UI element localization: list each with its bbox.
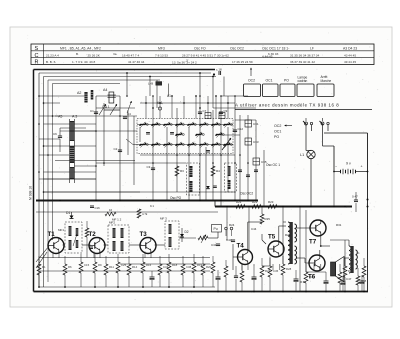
svg-text:16 40 47 7 4: 16 40 47 7 4 bbox=[122, 53, 139, 57]
svg-text:C31: C31 bbox=[253, 122, 259, 126]
svg-text:A utiliser avec dessin modè: A utiliser avec dessin modèle TX 938 16 … bbox=[235, 103, 339, 108]
oscillator coil Osc PO bbox=[187, 163, 200, 195]
svg-text:MF1: MF1 bbox=[58, 228, 64, 232]
svg-text:C34: C34 bbox=[163, 265, 169, 269]
resistor R4 bbox=[211, 166, 215, 176]
driver transformer core bbox=[290, 222, 293, 264]
svg-text:R4: R4 bbox=[216, 169, 220, 173]
junction dot top rail 2 bbox=[149, 76, 151, 78]
wire horizontal mid #1 bbox=[96, 95, 120, 97]
switch contact row1 #4 bbox=[176, 124, 182, 126]
svg-text:9 v: 9 v bbox=[346, 162, 351, 166]
svg-text:31 35 36 34 36 37 34: 31 35 36 34 36 37 34 bbox=[290, 53, 320, 57]
right rail corner horizontal bbox=[324, 132, 368, 134]
wire transistor lead down #6 bbox=[150, 252, 152, 259]
wire transistor lead down #12 bbox=[320, 264, 322, 270]
diode small near osc bbox=[206, 186, 210, 189]
wire drop from top rail E bbox=[212, 77, 214, 109]
battery wires bbox=[334, 171, 341, 173]
electrolytic cap CE5 bbox=[324, 280, 329, 282]
IF transformer MF3 bbox=[165, 221, 179, 249]
wire drop below C18 bbox=[223, 77, 225, 97]
svg-text:Osc OC2: Osc OC2 bbox=[230, 47, 244, 51]
resistor bottom #10 bbox=[167, 262, 171, 273]
svg-text:L1: L1 bbox=[300, 153, 304, 157]
switch contact row3 #2 bbox=[196, 134, 202, 136]
svg-text:R30: R30 bbox=[309, 275, 315, 279]
pickup jack PU bbox=[212, 225, 222, 233]
trimmer upper A bbox=[205, 113, 211, 119]
wire antenna to grid bbox=[75, 130, 97, 132]
svg-text:A4: A4 bbox=[103, 88, 107, 92]
resistor bottom #21 bbox=[362, 266, 366, 277]
electrolytic cap CE1 bbox=[150, 276, 155, 278]
capacitor C1 bbox=[94, 111, 98, 113]
svg-text:D1: D1 bbox=[66, 211, 70, 215]
svg-text:A3 D4 23: A3 D4 23 bbox=[343, 47, 357, 51]
junction dots rail bbox=[59, 200, 61, 202]
switch contact row1 #6 bbox=[200, 124, 206, 126]
electrolytic cap CE3 bbox=[252, 276, 257, 278]
switch contact row2 #7 bbox=[212, 144, 218, 146]
output transformer TR2 primary bbox=[349, 246, 351, 273]
capacitor across switch row C bbox=[206, 150, 210, 152]
wire left lower a bbox=[44, 178, 97, 180]
junction dot battery left bbox=[333, 171, 335, 173]
wire vertical mid #20 bbox=[263, 150, 265, 206]
switch contact row2 #8 bbox=[224, 144, 230, 146]
wire horizontal mid #6 bbox=[96, 162, 186, 164]
svg-text:R32: R32 bbox=[348, 269, 354, 273]
wire vertical mid #13 bbox=[212, 110, 214, 200]
svg-text:C25: C25 bbox=[121, 263, 127, 267]
svg-text:Pu: Pu bbox=[214, 227, 218, 231]
diagonal wire to T1 base a bbox=[36, 246, 49, 262]
band box PO bbox=[280, 84, 295, 97]
junction dot top rail 3 bbox=[199, 72, 201, 74]
upper mid dots bbox=[145, 102, 147, 104]
trimmer cap right of CA1 bbox=[123, 116, 127, 118]
switch contact row1 #5 bbox=[188, 124, 194, 126]
wire lamp down bbox=[310, 159, 312, 172]
svg-text:R1: R1 bbox=[42, 265, 46, 269]
wire T1 row interconnect bbox=[63, 244, 66, 246]
oscillator trim caps column bbox=[238, 169, 242, 171]
wire horizontal mid #4 bbox=[60, 130, 137, 132]
audio horizontal wire k bbox=[283, 221, 286, 223]
svg-text:M 938 16: M 938 16 bbox=[29, 186, 33, 200]
wire vertical mid #11 bbox=[199, 96, 201, 200]
svg-text:R9: R9 bbox=[98, 263, 102, 267]
resistor bottom #16 bbox=[281, 264, 285, 275]
resistor bottom #12 bbox=[192, 262, 196, 273]
wire vertical mid #14 bbox=[220, 96, 222, 200]
chassis rail left heavy bbox=[36, 200, 258, 202]
svg-text:41 47 46 44: 41 47 46 44 bbox=[128, 60, 145, 64]
electrolytic cap CE2 bbox=[216, 276, 221, 278]
wire horizontal mid #11 bbox=[235, 119, 256, 121]
resistor bottom #13 bbox=[201, 264, 205, 275]
top bus wire 4 bbox=[53, 83, 121, 85]
resistor R42 mid bottom bbox=[224, 266, 228, 277]
left rail stub wires bbox=[39, 95, 86, 97]
wire vertical mid #5 bbox=[133, 116, 135, 185]
wire drop from top rail D bbox=[199, 73, 201, 96]
schematic frame top bbox=[34, 69, 216, 71]
band box OC2 bbox=[244, 84, 261, 97]
svg-text:T5: T5 bbox=[268, 234, 276, 241]
table row line 2 bbox=[31, 57, 374, 59]
switch wiper arrow row2 bbox=[222, 138, 231, 150]
svg-text:A2: A2 bbox=[77, 91, 81, 95]
svg-text:4 44-45: 4 44-45 bbox=[262, 55, 273, 59]
coil A2 partner bar bbox=[91, 90, 94, 100]
svg-text:Osc FO: Osc FO bbox=[194, 47, 206, 51]
resistor R40 below volume bbox=[211, 262, 215, 273]
speaker HP bbox=[331, 262, 336, 276]
switch row1 wire bbox=[137, 124, 233, 126]
wire T6 T7 join bbox=[321, 245, 330, 247]
svg-text:C45: C45 bbox=[273, 269, 279, 273]
wire transistor lead down #7 bbox=[241, 264, 243, 270]
wire T5 collector to TR1 bbox=[278, 226, 280, 242]
svg-text:OC2: OC2 bbox=[248, 79, 255, 83]
wire left lower b bbox=[44, 191, 141, 193]
resistor R10 vertical near rail bbox=[137, 209, 141, 218]
svg-text:Marche: Marche bbox=[321, 79, 332, 83]
switch bank dashed enclosure bbox=[137, 119, 233, 154]
paper sheet bbox=[10, 27, 392, 307]
switch contact row2 #5 bbox=[188, 144, 194, 146]
wire vertical mid #4 bbox=[127, 110, 129, 155]
wire vertical mid #7 bbox=[152, 96, 154, 200]
left bus wire 4 bbox=[52, 84, 54, 241]
wire T4 base bbox=[233, 256, 238, 258]
wire vertical mid #10 bbox=[188, 127, 190, 200]
oscillator coil Osc OC2 bbox=[225, 163, 237, 192]
wire TR1 to T7 base bbox=[297, 227, 311, 229]
right rail vertical bbox=[367, 133, 369, 292]
wire vertical mid #15 bbox=[227, 127, 229, 192]
svg-text:C33: C33 bbox=[253, 140, 259, 144]
audio vertical wire f bbox=[282, 207, 284, 265]
resistor bottom #6 bbox=[116, 262, 120, 273]
electrolytic cap C46 right bbox=[341, 281, 346, 283]
wire horizontal mid #7 bbox=[60, 171, 96, 173]
junction dot top rail 4 bbox=[212, 76, 214, 78]
bottom bus wire thin bbox=[39, 286, 215, 288]
resistor bottom #3 bbox=[79, 262, 83, 273]
svg-text:R26: R26 bbox=[285, 233, 291, 237]
output transformer core bbox=[351, 246, 354, 273]
svg-text:R24: R24 bbox=[229, 223, 235, 227]
wire drop from top rail A bbox=[126, 73, 128, 96]
audio vertical wire c bbox=[333, 146, 335, 207]
svg-text:R11: R11 bbox=[109, 265, 114, 269]
IF transformer MF2 bbox=[108, 225, 129, 253]
trimmer C35 bbox=[253, 158, 260, 165]
switch S1 pole 2 bbox=[310, 122, 312, 124]
resistor R8 horizontal on wire bbox=[105, 212, 116, 216]
wire transistor lead down #5 bbox=[144, 252, 146, 259]
capacitor across switch row A bbox=[146, 132, 150, 134]
svg-text:LF: LF bbox=[310, 47, 314, 51]
top bus wire 3 bbox=[48, 79, 160, 81]
wire TR1 to T6 base bbox=[297, 257, 306, 259]
svg-text:C41: C41 bbox=[211, 243, 217, 247]
svg-text:PO: PO bbox=[284, 79, 289, 83]
svg-text:C4: C4 bbox=[127, 112, 131, 116]
svg-text:C48: C48 bbox=[361, 279, 367, 283]
output transformer secondary bbox=[356, 250, 358, 269]
resistor bottom #11 bbox=[181, 264, 185, 275]
svg-text:T1: T1 bbox=[48, 231, 56, 238]
bottom distribution wire 3 bbox=[40, 257, 210, 259]
svg-text:R16: R16 bbox=[146, 263, 152, 267]
scan speckle bbox=[12, 29, 390, 304]
svg-text:R22: R22 bbox=[252, 200, 258, 204]
switch contact row1 #3 bbox=[164, 124, 170, 126]
resistor R25 vertical bbox=[260, 214, 264, 224]
switch contact row2 #2 bbox=[152, 144, 158, 146]
component L1B on top wire bbox=[156, 81, 163, 85]
capacitor C7 bbox=[198, 111, 202, 113]
top bus wire 2 bbox=[44, 76, 217, 78]
top bus wire 1 bbox=[39, 72, 211, 74]
svg-text:B. B. 6.: B. B. 6. bbox=[46, 60, 56, 64]
left rail junction dots bbox=[38, 95, 40, 97]
svg-text:R25: R25 bbox=[265, 217, 271, 221]
svg-text:A5: A5 bbox=[58, 115, 62, 119]
wire horizontal mid #12 bbox=[221, 134, 240, 136]
audio vertical wire j bbox=[220, 201, 222, 207]
transistor T7 bbox=[310, 220, 326, 236]
left bus wire 2 bbox=[43, 77, 45, 288]
transistor T6 bbox=[309, 255, 325, 271]
svg-text:T2: T2 bbox=[89, 231, 97, 238]
bottom distribution wire left bbox=[40, 270, 210, 272]
wire transistor lead down #10 bbox=[279, 264, 281, 270]
svg-text:R: R bbox=[35, 60, 39, 66]
ferrite rod antenna A3 bbox=[69, 119, 71, 183]
wire vertical mid #12 bbox=[205, 147, 207, 200]
svg-text:A 3: A 3 bbox=[72, 115, 77, 119]
svg-text:43 44 45: 43 44 45 bbox=[344, 53, 356, 57]
resistor bottom #4 bbox=[93, 262, 97, 273]
switch row2 wire stub left bbox=[126, 139, 133, 145]
wire horizontal mid #10 bbox=[213, 107, 256, 109]
resistor bottom #17 bbox=[304, 272, 308, 283]
svg-text:R18: R18 bbox=[172, 263, 178, 267]
svg-text:MF3: MF3 bbox=[158, 47, 165, 51]
wire TR2 top bbox=[348, 240, 350, 246]
svg-text:R31: R31 bbox=[336, 223, 342, 227]
band box OC1 bbox=[263, 84, 279, 97]
wire transistor lead down #4 bbox=[99, 252, 101, 259]
resistor R3 bbox=[175, 166, 179, 176]
resistor bottom #8 bbox=[141, 262, 145, 273]
bottom junction dots bbox=[38, 286, 40, 288]
svg-text:R20: R20 bbox=[206, 265, 212, 269]
transistor T3 bbox=[140, 238, 156, 254]
resistor R7 between T1 T2 bbox=[85, 228, 89, 237]
audio horizontal wire m bbox=[262, 265, 270, 267]
resistor bottom #15 bbox=[268, 266, 272, 277]
svg-text:R3: R3 bbox=[180, 169, 184, 173]
cap near osc 2 bbox=[213, 185, 217, 187]
band box Arret Marche bbox=[317, 84, 334, 97]
resistor bottom #2 bbox=[63, 264, 67, 275]
audio vertical wire b bbox=[305, 210, 307, 272]
wire T7 emitter down bbox=[320, 236, 322, 247]
svg-text:Osc PO: Osc PO bbox=[170, 196, 182, 200]
capacitor C6 left of rod bbox=[58, 135, 62, 137]
svg-text:49 44 45: 49 44 45 bbox=[344, 60, 356, 64]
svg-text:B.: B. bbox=[76, 52, 79, 56]
svg-text:4.7k: 4.7k bbox=[142, 212, 148, 216]
capacitor C12 bbox=[233, 129, 237, 131]
svg-text:Osc OC1 17 18 1-: Osc OC1 17 18 1- bbox=[262, 47, 289, 51]
svg-text:C44: C44 bbox=[251, 227, 257, 231]
wire vertical mid #2 bbox=[103, 103, 105, 166]
junction dot top rail 1 bbox=[126, 72, 128, 74]
cap 0.47 right bbox=[354, 199, 358, 201]
IF transformer MF1 bbox=[65, 222, 82, 253]
audio vertical wire d bbox=[344, 240, 346, 266]
capacitor C18 on top rail bbox=[218, 71, 220, 75]
upper mid vertical drops bbox=[145, 96, 147, 119]
audio vertical wire i bbox=[226, 207, 228, 241]
svg-text:MF 3: MF 3 bbox=[160, 217, 167, 221]
svg-text:C A 1: C A 1 bbox=[102, 105, 110, 109]
svg-text:36 37 39 40 41 42: 36 37 39 40 41 42 bbox=[290, 60, 315, 64]
svg-text:7 8 13 53: 7 8 13 53 bbox=[155, 53, 168, 57]
switch contact row2 #6 bbox=[200, 144, 206, 146]
svg-text:C2: C2 bbox=[114, 147, 118, 151]
wire vertical mid #17 bbox=[239, 115, 241, 200]
diode D1 bbox=[70, 216, 74, 219]
junction dots middle bbox=[95, 130, 97, 132]
svg-text:S: S bbox=[35, 46, 39, 52]
upper mid horizontal wire bbox=[140, 102, 235, 104]
svg-text:OC1: OC1 bbox=[266, 79, 273, 83]
svg-text:Osc OC 1: Osc OC 1 bbox=[266, 163, 280, 167]
resistor bottom #5 bbox=[104, 264, 108, 275]
volume pot P1 bbox=[198, 236, 208, 240]
capacitor C2 bbox=[118, 149, 122, 151]
capacitor C42 below T4 bbox=[234, 275, 238, 277]
svg-text:C3: C3 bbox=[147, 165, 151, 169]
table row line 1 bbox=[31, 50, 374, 52]
driver transformer secondary 2 bbox=[295, 246, 297, 264]
svg-text:R19: R19 bbox=[197, 263, 203, 267]
svg-text:21.23 A 4: 21.23 A 4 bbox=[46, 53, 59, 57]
wire horizontal mid #8 bbox=[140, 191, 235, 193]
trimmer C33 bbox=[245, 138, 252, 145]
svg-text:MF1 , B5, A1, A5, A4 , MF2: MF1 , B5, A1, A5, A4 , MF2 bbox=[60, 47, 101, 51]
svg-text:L+B: L+B bbox=[148, 82, 153, 86]
wire T5 base bbox=[261, 234, 263, 240]
switch contact row1 #7 bbox=[212, 124, 218, 126]
svg-text:1. 7 3 9. 40. 43 8: 1. 7 3 9. 40. 43 8 bbox=[72, 60, 96, 64]
table label column bbox=[43, 44, 45, 65]
svg-text:C16: C16 bbox=[95, 206, 101, 210]
svg-text:OC2: OC2 bbox=[274, 124, 281, 128]
switch contact row2 #1 bbox=[140, 144, 146, 146]
wire transistor lead down #1 bbox=[52, 252, 54, 259]
variable capacitor CA1 bbox=[104, 109, 120, 111]
wire horizontal mid #3 bbox=[55, 115, 137, 117]
trim arrow right bbox=[127, 101, 132, 113]
svg-text:C1: C1 bbox=[90, 109, 94, 113]
wire drop from top rail F bbox=[168, 84, 170, 97]
resistor bottom #19 bbox=[343, 266, 347, 277]
switch contact row2 #3 bbox=[164, 144, 170, 146]
transistor T4 bbox=[238, 250, 253, 265]
wire vertical mid #6 bbox=[139, 127, 141, 142]
parts table frame bbox=[31, 44, 374, 65]
switch S1 contact bbox=[305, 122, 308, 125]
capacitor C43 bbox=[231, 239, 235, 241]
svg-text:T7: T7 bbox=[309, 239, 317, 246]
wire vertical mid #19 bbox=[255, 120, 257, 200]
top rail end dot bbox=[213, 73, 215, 75]
switch contact row1 #8 bbox=[224, 124, 230, 126]
audio vertical wire a bbox=[299, 207, 301, 292]
wire transistor lead down #9 bbox=[272, 264, 274, 270]
capacitor across switch row B bbox=[170, 132, 174, 134]
switch contact row2 #4 bbox=[176, 144, 182, 146]
diagonal wire to T1 base b bbox=[36, 252, 47, 268]
svg-text:D2: D2 bbox=[185, 230, 189, 234]
schematic frame left bbox=[33, 70, 35, 292]
svg-text:MF2: MF2 bbox=[109, 221, 115, 225]
wire jack leads bbox=[225, 230, 227, 236]
trimmer A4 bbox=[109, 92, 114, 103]
switch contact row1 #2 bbox=[152, 124, 158, 126]
capacitor C9 bbox=[219, 111, 223, 113]
wire vertical mid #1 bbox=[95, 96, 97, 200]
svg-text:R28: R28 bbox=[286, 267, 292, 271]
svg-text:0.47: 0.47 bbox=[352, 195, 358, 199]
resistor bottom #7 bbox=[127, 264, 131, 275]
svg-text:A1: A1 bbox=[167, 94, 171, 98]
wire vertical mid #16 bbox=[234, 96, 236, 200]
switch contact row3 #3 bbox=[216, 134, 222, 136]
audio horizontal wire l bbox=[306, 271, 326, 273]
svg-text:C: C bbox=[35, 53, 39, 59]
driver transformer TR1 primary bbox=[288, 222, 290, 264]
wire vertical mid #18 bbox=[247, 115, 249, 200]
svg-text:+: + bbox=[361, 165, 363, 169]
svg-text:C38: C38 bbox=[186, 265, 192, 269]
resistor bottom #18 bbox=[338, 272, 342, 283]
capacitor C41 at volume bbox=[216, 243, 220, 245]
diode D2 bbox=[180, 234, 184, 237]
svg-text:16: 16 bbox=[109, 208, 113, 212]
band box Lampe cadran bbox=[297, 84, 314, 97]
wire horizontal mid #2 bbox=[96, 107, 135, 109]
wire T4 collector up bbox=[247, 222, 249, 250]
svg-text:R27: R27 bbox=[265, 269, 271, 273]
svg-text:17 46 25 24 59: 17 46 25 24 59 bbox=[232, 60, 253, 64]
svg-text:R6: R6 bbox=[68, 265, 72, 269]
wire vertical mid #8 bbox=[166, 127, 168, 200]
svg-text:cadran: cadran bbox=[298, 79, 308, 83]
thin rail below bbox=[36, 211, 218, 213]
svg-text:−: − bbox=[335, 165, 337, 169]
resistor R22 horizontal bbox=[252, 205, 261, 209]
